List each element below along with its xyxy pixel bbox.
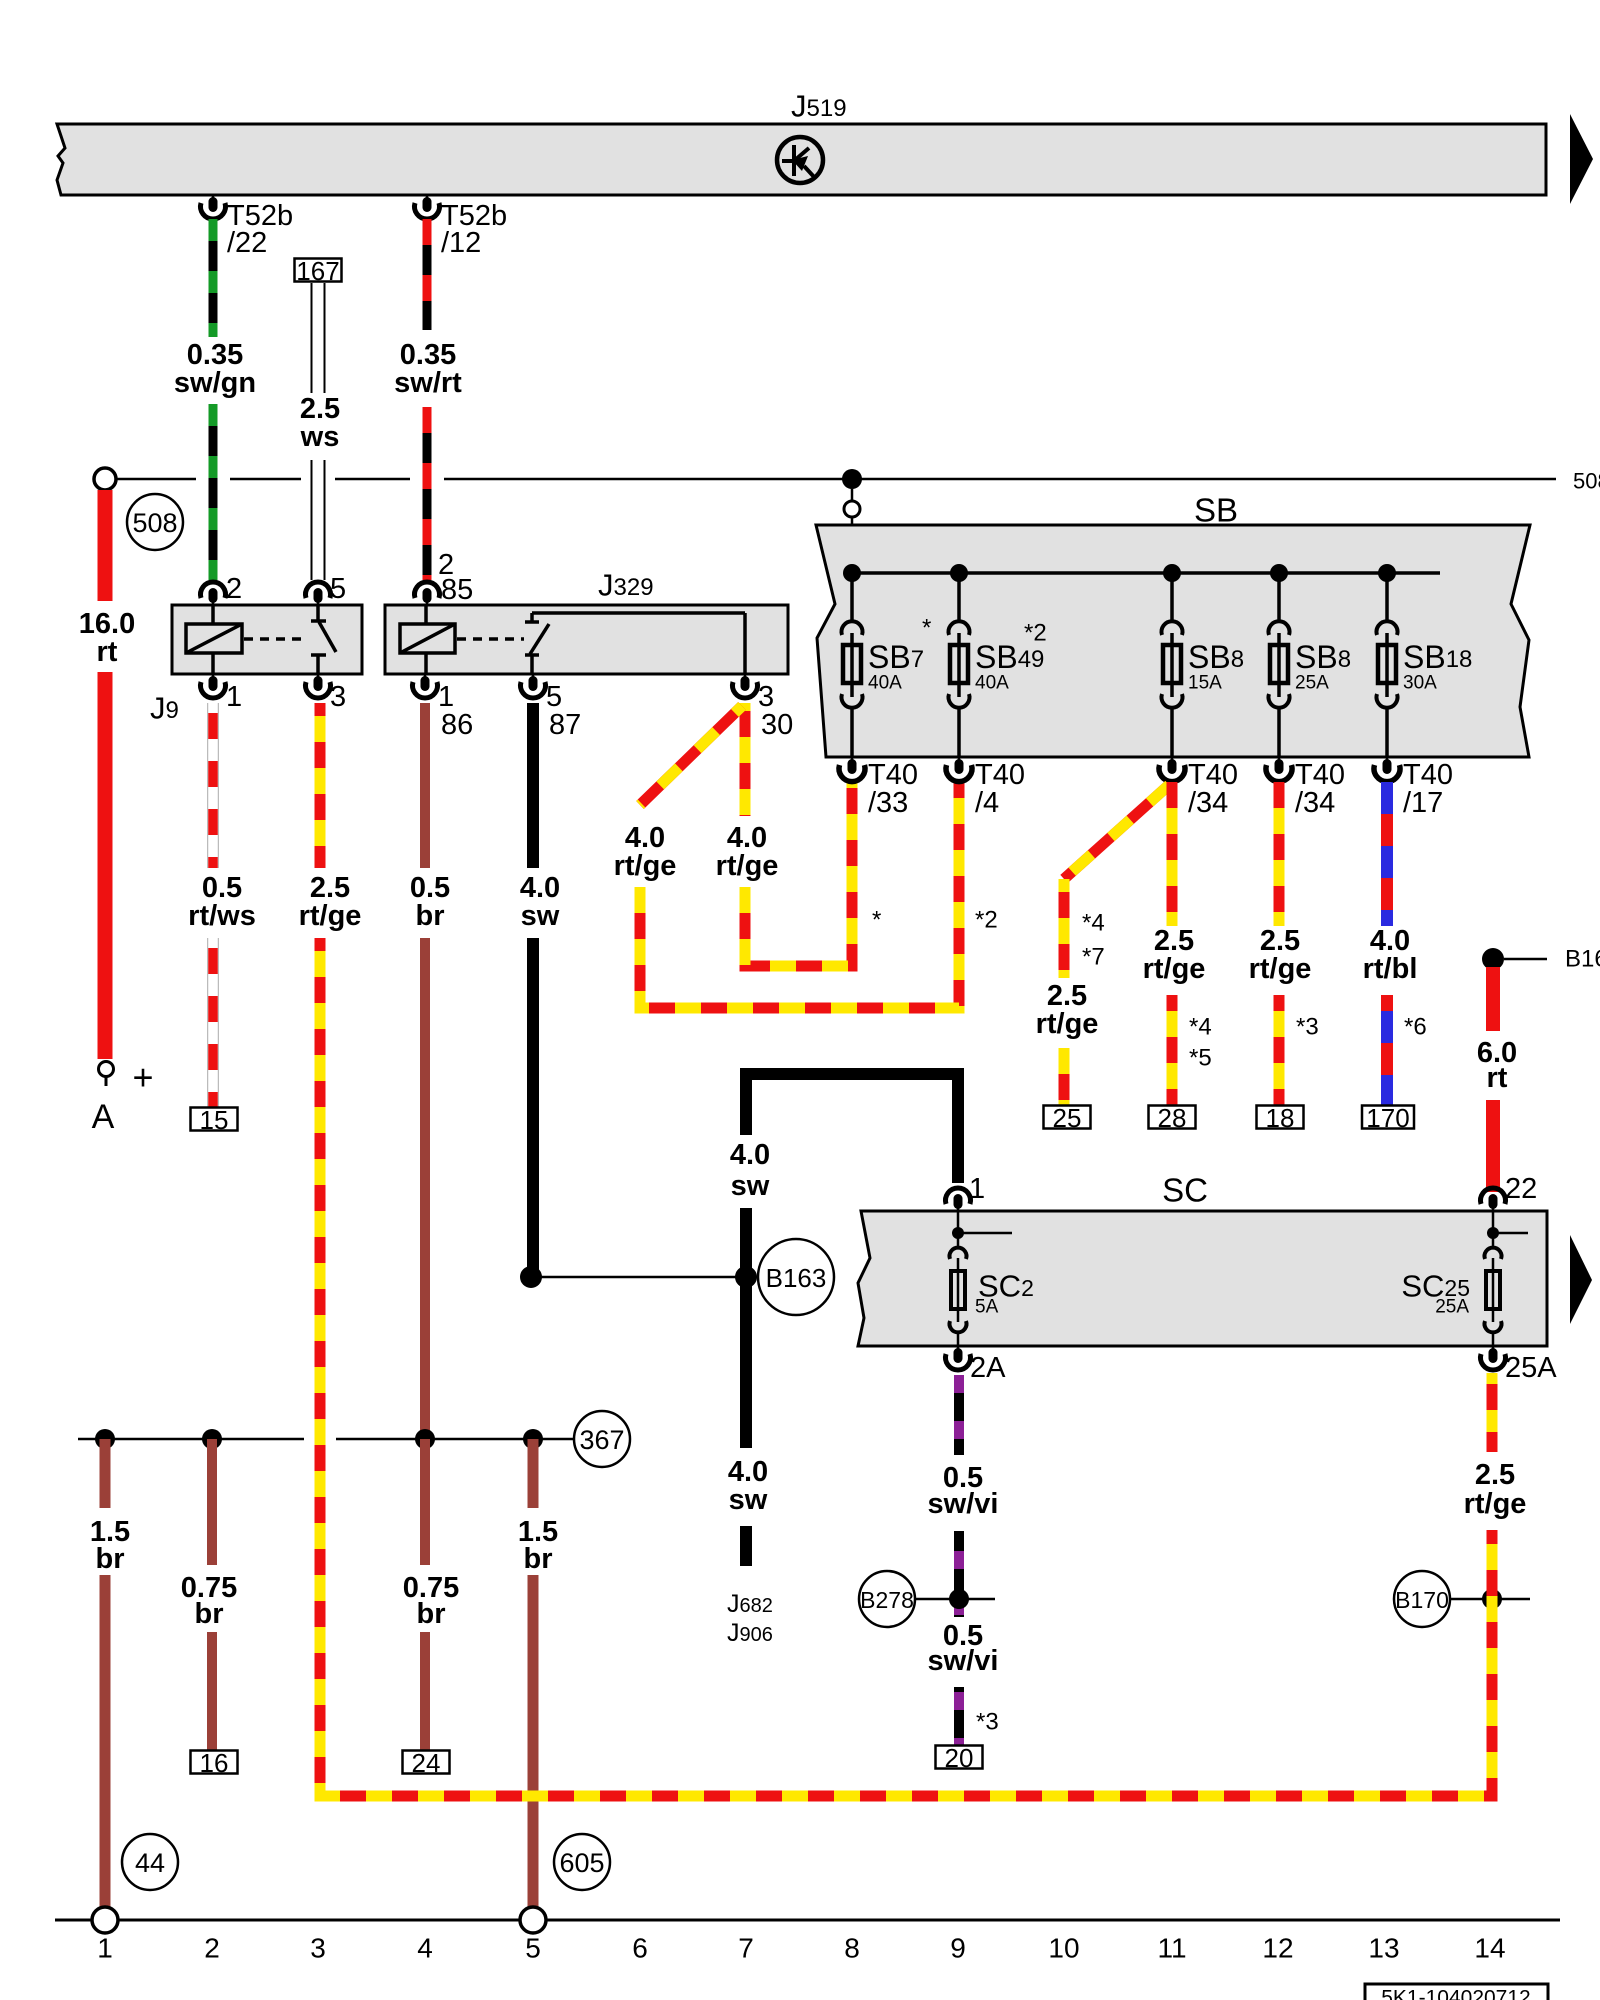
svg-text:25A: 25A (1295, 673, 1329, 694)
circle label 44 (122, 1834, 178, 1890)
fuse SC2 5A (957, 1211, 960, 1249)
control unit J519 (onboard supply control unit bar) (57, 124, 1546, 195)
J329 pin 1/86 (424, 674, 427, 680)
svg-text:5: 5 (525, 1933, 541, 1964)
svg-text:*4: *4 (1082, 910, 1105, 937)
terminal box 25 (1044, 1106, 1091, 1129)
svg-text:/34: /34 (1295, 787, 1335, 819)
svg-text:18: 18 (1266, 1103, 1295, 1133)
fuse SB49 40A (950, 564, 968, 582)
svg-text:85: 85 (441, 574, 473, 606)
terminal box 170 (1362, 1106, 1414, 1129)
svg-text:sw/rt: sw/rt (394, 367, 462, 399)
node B170 (1450, 1598, 1530, 1601)
svg-text:br: br (96, 1543, 125, 1575)
wire 0.5 rt/ws from J9 pin 1 to terminal 15 (207, 703, 219, 868)
wire 4.0 sw U-run from B163 up to SC pin 1 (746, 1074, 958, 1183)
relay J329 switch contact (525, 620, 539, 624)
wire 6.0 rt from B169 to SC pin 22 (1486, 967, 1500, 1031)
svg-text:J9: J9 (150, 691, 179, 726)
J9 pin 1 (212, 674, 215, 680)
svg-text:7: 7 (738, 1933, 754, 1964)
svg-text:rt/ge: rt/ge (716, 850, 779, 882)
svg-text:B278: B278 (860, 1587, 914, 1613)
svg-text:/34: /34 (1188, 787, 1228, 819)
node rail 367 (78, 1438, 304, 1441)
svg-text:rt/ge: rt/ge (1464, 1488, 1527, 1520)
terminal box 16 (191, 1751, 238, 1774)
svg-text:rt/ge: rt/ge (1249, 953, 1312, 985)
terminal box 28 (1149, 1106, 1196, 1129)
svg-text:br: br (195, 1598, 224, 1630)
svg-text:5: 5 (330, 573, 346, 605)
wire 4.0 sw from J329 pin 87 to node B163 (527, 703, 539, 868)
svg-text:2A: 2A (970, 1352, 1006, 1384)
svg-text:3: 3 (310, 1933, 326, 1964)
svg-text:30: 30 (761, 709, 793, 741)
svg-text:B169: B169 (1565, 946, 1600, 973)
connector T52b/12 on J519 (426, 195, 429, 201)
svg-text:25A: 25A (1435, 1297, 1469, 1318)
svg-text:167: 167 (296, 256, 339, 286)
relay J329 box (385, 605, 788, 674)
SC pin 1 (946, 1188, 971, 1204)
svg-text:*3: *3 (1296, 1014, 1319, 1041)
svg-text:*2: *2 (1024, 620, 1047, 647)
wire 16.0 rt (battery feed) (98, 490, 113, 601)
J329 pin 3/30 (744, 674, 747, 680)
connector T40/33 (851, 757, 854, 763)
wire from rail 508 to SB panel (851, 489, 854, 525)
svg-text:sw: sw (521, 900, 560, 932)
svg-text:170: 170 (1366, 1103, 1409, 1133)
SB internal bus (852, 571, 1440, 575)
circle label 605 (554, 1834, 610, 1890)
svg-text:B170: B170 (1395, 1587, 1449, 1613)
arrow continuation of SC to right (1570, 1235, 1592, 1324)
svg-text:rt/bl: rt/bl (1363, 953, 1418, 985)
svg-text:15: 15 (200, 1105, 229, 1135)
svg-text:30A: 30A (1403, 673, 1437, 694)
wire 2.5 rt/ge from T40/34 (25A) to terminal 18 (1274, 782, 1285, 926)
relay J9 coil (186, 624, 242, 653)
svg-text:4.0: 4.0 (730, 1139, 770, 1171)
svg-text:5K1-104020712: 5K1-104020712 (1381, 1987, 1530, 2000)
svg-text:sw: sw (731, 1170, 770, 1202)
svg-text:9: 9 (950, 1933, 966, 1964)
svg-text:605: 605 (559, 1848, 604, 1878)
node B169 (1482, 948, 1504, 970)
svg-text:rt/ws: rt/ws (188, 900, 256, 932)
svg-text:367: 367 (579, 1425, 624, 1455)
svg-text:J519: J519 (791, 89, 847, 124)
svg-text:sw/vi: sw/vi (928, 1488, 999, 1520)
node B278 (915, 1598, 995, 1601)
svg-text:*5: *5 (1189, 1045, 1212, 1072)
J329 pin 5/87 (532, 674, 535, 680)
svg-text:rt/ge: rt/ge (614, 850, 677, 882)
svg-text:24: 24 (412, 1748, 441, 1778)
svg-text:/33: /33 (868, 787, 908, 819)
wire: long horizontal 2.5 rt/ge run from J9 pin 3 to B170 (320, 1530, 1492, 1796)
wire 2.5 rt/ge diagonal from T40/34 (15A) to terminal 25 (1064, 785, 1169, 879)
wire 2.5 ws (white) from 167 to J9 pin 5 (311, 283, 326, 393)
svg-text:*7: *7 (1082, 944, 1105, 971)
svg-text:sw/gn: sw/gn (174, 367, 256, 399)
fuse panel SB (816, 525, 1530, 757)
junction dot on rail 508 feeding SB (842, 469, 862, 489)
wire 2.5 rt/ge from T40/34 (15A) to terminal 28 (1167, 782, 1178, 926)
wire 4.0 rt/ge from J329 pin 30 to SB7 T40/33 (inner U) (740, 703, 751, 816)
svg-text:J682: J682 (727, 1590, 773, 1618)
svg-text:12: 12 (1262, 1933, 1293, 1964)
svg-text:SC: SC (1162, 1172, 1208, 1209)
connector T52b/22 on J519 (212, 195, 215, 201)
connector T40/34 (1278, 757, 1281, 763)
svg-text:1: 1 (226, 681, 242, 713)
svg-text:*4: *4 (1189, 1014, 1212, 1041)
ground symbol 5 (520, 1907, 546, 1933)
terminal box 167 (295, 259, 342, 282)
fuse SB8 15A (1163, 564, 1181, 582)
J329 pin 2/85 (415, 582, 440, 598)
part number box 5K1-104020712 (1365, 1984, 1548, 2000)
svg-text:20: 20 (945, 1743, 974, 1773)
svg-text:2.5: 2.5 (1475, 1459, 1515, 1491)
svg-text:J906: J906 (727, 1619, 773, 1647)
svg-text:10: 10 (1048, 1933, 1079, 1964)
wire 0.75 br from rail 367 to terminal 16 (207, 1439, 217, 1565)
svg-text:*: * (872, 907, 881, 934)
wire 2.5 rt/ge from J9 pin 3 down, across bottom, up to SC25 (B170) (315, 703, 326, 868)
circle label 508 (127, 494, 183, 550)
relay J329 dashed link (457, 637, 524, 641)
svg-text:508: 508 (1573, 469, 1600, 494)
svg-text:br: br (524, 1543, 553, 1575)
svg-text:1: 1 (969, 1173, 985, 1205)
open terminal circle on rail 508 left end (94, 468, 116, 490)
fuse SB8 25A (1270, 564, 1288, 582)
relay J9 box (172, 605, 362, 674)
terminal box 20 (936, 1746, 983, 1769)
svg-text:/4: /4 (975, 787, 999, 819)
svg-text:*3: *3 (976, 1709, 999, 1736)
svg-text:*2: *2 (975, 907, 998, 934)
svg-text:rt/ge: rt/ge (299, 900, 362, 932)
svg-text:5A: 5A (975, 1297, 999, 1318)
arrow continuation of J519 to right (1570, 114, 1593, 204)
svg-text:rt: rt (1487, 1062, 1508, 1094)
fuse SB18 30A (1378, 564, 1396, 582)
wire 4.0 rt/ge from J329 pin 30 to SB49 T40/4 (outer U, diagonal) (640, 706, 742, 805)
connector T40/4 (958, 757, 961, 763)
wire 0.75 br from rail 367 to terminal 24 (420, 1439, 430, 1565)
svg-text:ws: ws (300, 421, 340, 453)
svg-text:rt/ge: rt/ge (1143, 953, 1206, 985)
circle label 367 (574, 1411, 630, 1467)
svg-text:40A: 40A (868, 673, 902, 694)
svg-text:br: br (417, 1598, 446, 1630)
relay J9 actuating dashed link (244, 637, 306, 641)
wire 0.5 sw/vi from SC2 pin 2A to B278 and terminal 20 (954, 1375, 964, 1455)
svg-text:A: A (92, 1098, 115, 1136)
svg-text:4: 4 (417, 1933, 433, 1964)
svg-text:28: 28 (1158, 1103, 1187, 1133)
SC pin 22 (1480, 1188, 1505, 1204)
terminal 30 arrow symbol (circle with K arrow) inside J519 (777, 137, 823, 183)
svg-text:B163: B163 (766, 1263, 827, 1293)
svg-text:25A: 25A (1505, 1352, 1557, 1384)
svg-text:sw: sw (729, 1484, 768, 1516)
svg-text:6: 6 (632, 1933, 648, 1964)
wire 0.35 sw/rt (black/red) from T52b/12 to J329 pin 85 (423, 219, 432, 330)
fuse panel SC (858, 1211, 1547, 1346)
svg-text:rt/ge: rt/ge (1036, 1008, 1099, 1040)
svg-text:14: 14 (1474, 1933, 1505, 1964)
wire 4.0 rt/bl from T40/17 to terminal 170 (1381, 782, 1393, 926)
svg-text:22: 22 (1505, 1173, 1537, 1205)
relay J329 coil (400, 624, 455, 653)
svg-text:*6: *6 (1404, 1014, 1427, 1041)
svg-text:25: 25 (1053, 1103, 1082, 1133)
svg-text:J329: J329 (598, 568, 654, 603)
svg-text:rt: rt (97, 636, 118, 668)
svg-text:SB: SB (1194, 492, 1238, 529)
node rail 508 (116, 478, 196, 481)
svg-text:11: 11 (1157, 1933, 1186, 1964)
svg-text:br: br (416, 900, 445, 932)
fuse SB7 40A (843, 564, 861, 582)
relay J9 switch contact (316, 605, 320, 620)
svg-text:1: 1 (97, 1933, 113, 1964)
svg-text:44: 44 (135, 1848, 165, 1878)
J9 pin 2 (201, 582, 226, 598)
svg-text:+: + (132, 1057, 153, 1098)
ground symbol 1 (92, 1907, 118, 1933)
terminal box 24 (403, 1751, 450, 1774)
wire 2.5 rt/ge from SC25 pin to B170 (1487, 1373, 1498, 1452)
ground rail (55, 1919, 1560, 1922)
svg-text:16: 16 (200, 1748, 229, 1778)
svg-text:15A: 15A (1188, 673, 1222, 694)
SC pin 25A (1492, 1346, 1495, 1352)
fuse SC25 25A (1492, 1211, 1495, 1249)
svg-text:3: 3 (330, 681, 346, 713)
svg-text:87: 87 (549, 709, 581, 741)
svg-text:8: 8 (844, 1933, 860, 1964)
svg-text:*: * (922, 615, 931, 642)
wire 1.5 br from rail 367 to ground 5 (528, 1439, 539, 1508)
wire 0.5 br from J329 pin 86 to rail 367 (420, 703, 430, 868)
svg-text:/22: /22 (227, 227, 267, 259)
J9 pin 3 (317, 674, 320, 680)
battery positive terminal A (99, 1062, 114, 1077)
svg-text:13: 13 (1368, 1933, 1399, 1964)
node B163 junction dots and link (531, 1276, 760, 1279)
SC pin 2A (957, 1346, 960, 1352)
wire 1.5 br from rail 367 to ground 1 (100, 1439, 111, 1508)
svg-text:508: 508 (132, 508, 177, 538)
J9 pin 5 (306, 582, 331, 598)
svg-text:2: 2 (204, 1933, 220, 1964)
connector T40/17 (1386, 757, 1389, 763)
svg-text:sw/vi: sw/vi (928, 1645, 999, 1677)
connector T40/34 (1171, 757, 1174, 763)
terminal box 18 (1257, 1106, 1304, 1129)
svg-text:86: 86 (441, 709, 473, 741)
svg-text:/12: /12 (441, 227, 481, 259)
terminal box 15 (191, 1108, 238, 1131)
svg-text:40A: 40A (975, 673, 1009, 694)
svg-text:/17: /17 (1403, 787, 1443, 819)
wire 0.35 sw/gn (black/green) from T52b/22 to J9 pin 2 (209, 219, 218, 337)
svg-text:2: 2 (226, 573, 242, 605)
